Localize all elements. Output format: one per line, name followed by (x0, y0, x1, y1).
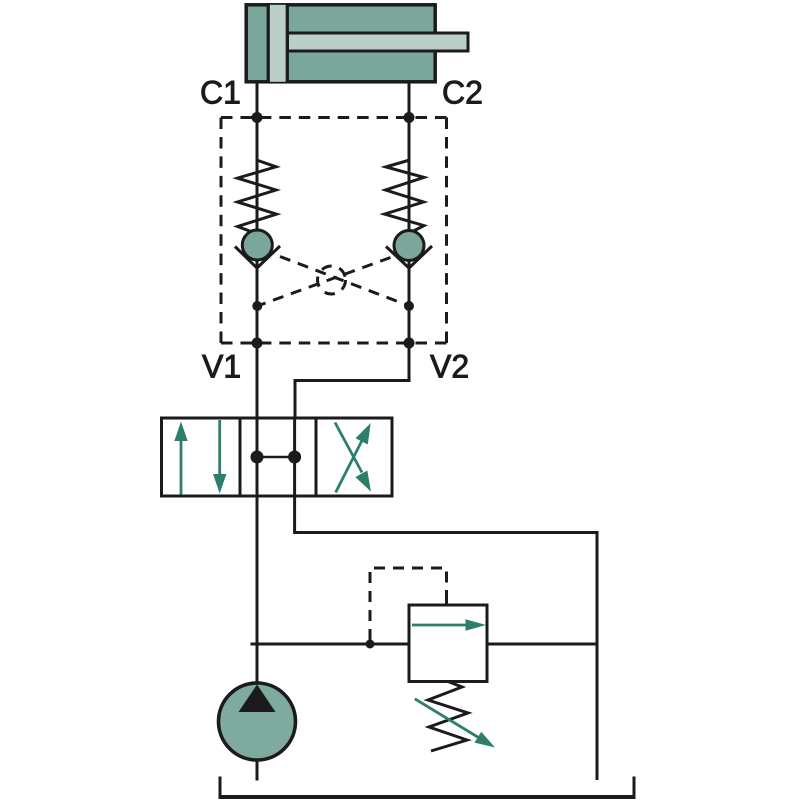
svg-text:C2: C2 (442, 75, 483, 111)
svg-text:V2: V2 (430, 349, 469, 385)
svg-text:C1: C1 (200, 75, 241, 111)
svg-text:V1: V1 (202, 349, 241, 385)
